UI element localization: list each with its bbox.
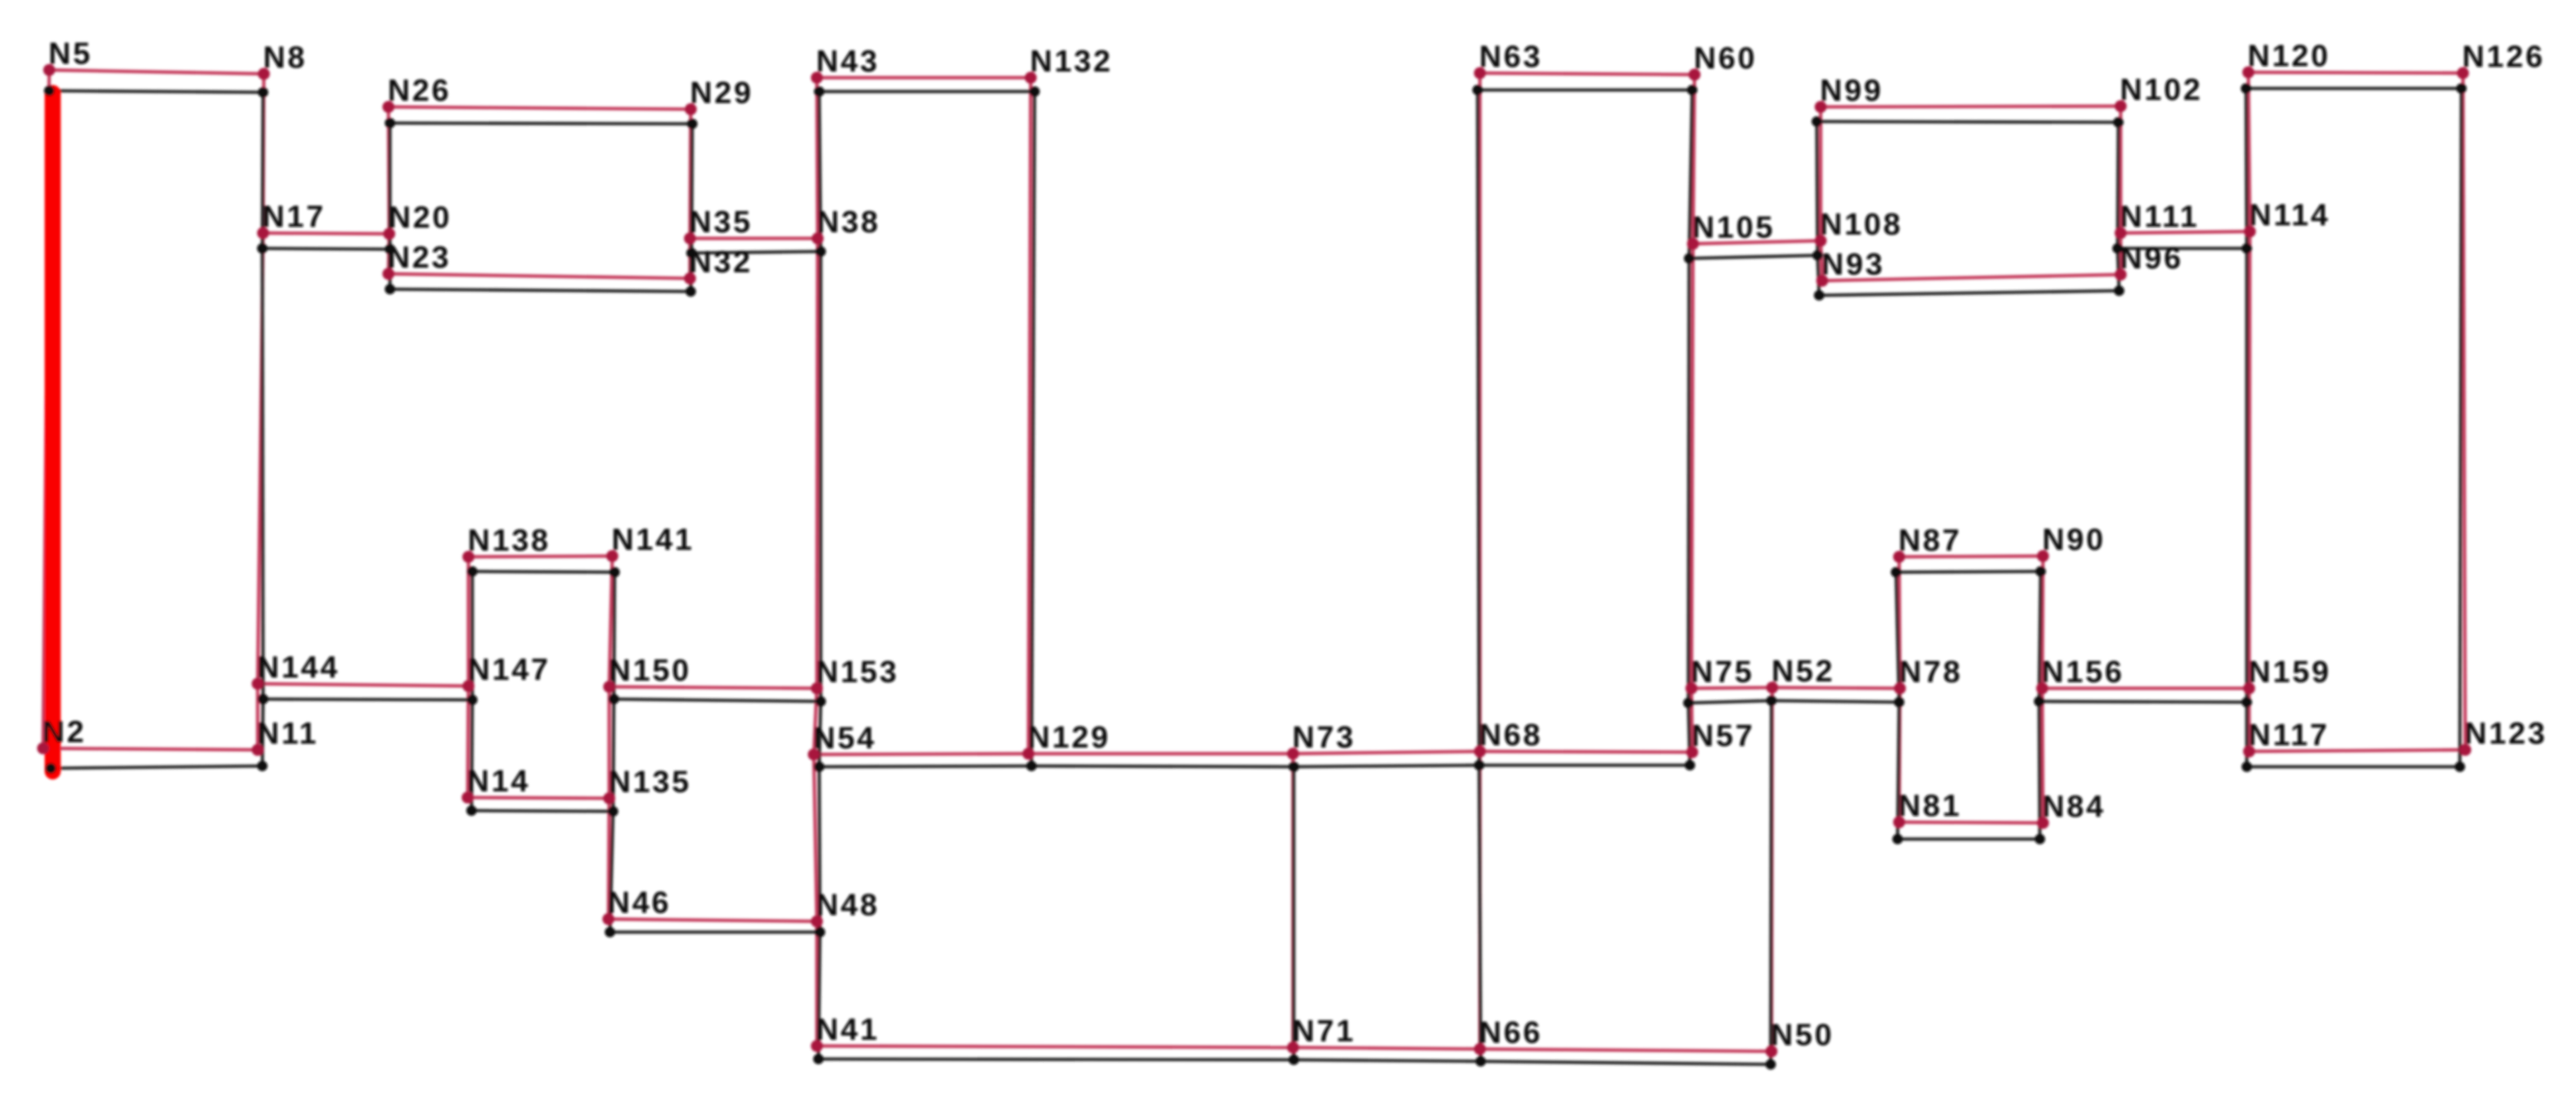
- wire N117-N123 (black layout): [2247, 765, 2460, 768]
- node N29 (red layout): [685, 103, 697, 115]
- wire N23-N32 (red layout): [388, 274, 690, 278]
- wire N43-N132 (red layout): [817, 76, 1031, 79]
- wire N156-N84 (red layout): [2042, 688, 2043, 823]
- wire N75-N57 (red layout): [1691, 688, 1692, 752]
- wire N14-N135 (red layout): [468, 798, 609, 798]
- wire N54-N129 (black layout): [819, 766, 1031, 767]
- wire N159-N117 (red layout): [2248, 688, 2251, 751]
- node N108 (red layout): [1815, 235, 1827, 247]
- wire N150-N135 (black layout): [613, 699, 614, 811]
- wire N114-N159 (red layout): [2249, 231, 2250, 688]
- svg-text:N117: N117: [2248, 718, 2329, 752]
- wire N99-N102 (red layout): [1821, 106, 2121, 107]
- node N96 (black layout): [2114, 285, 2124, 296]
- wire N87-N90 (red layout): [1899, 556, 2043, 557]
- wire N132-N129 (black layout): [1031, 92, 1035, 766]
- wire N5-N8 (red layout): [49, 70, 264, 74]
- wire N138-N147 (red layout): [467, 557, 470, 686]
- wire N78-N81 (red layout): [1899, 688, 1900, 822]
- wire N87-N78 (black layout): [1896, 572, 1899, 702]
- node N57 (red layout): [1686, 746, 1698, 758]
- wire N5-N2 (red layout): [43, 70, 49, 748]
- node N68 (red layout): [1474, 745, 1486, 758]
- svg-text:N108: N108: [1820, 208, 1903, 241]
- wire N54-N48 (black layout): [819, 767, 820, 932]
- svg-text:N68: N68: [1479, 718, 1542, 752]
- wire N17-N20 (black layout): [262, 248, 390, 249]
- node N14 (red layout): [462, 791, 474, 804]
- node N75 (black layout): [1683, 698, 1694, 708]
- wire N111-N114 (black layout): [2118, 247, 2247, 250]
- node N159 (red layout): [2243, 682, 2255, 694]
- node N84 (red layout): [2037, 817, 2049, 829]
- wire N20-N23 (black layout): [388, 249, 392, 289]
- node N48 (red layout): [811, 915, 823, 927]
- node N123 (red layout): [2459, 744, 2471, 756]
- svg-text:N2: N2: [42, 715, 86, 749]
- svg-text:N57: N57: [1691, 719, 1755, 753]
- wire N17-N20 (red layout): [263, 233, 389, 234]
- svg-text:N26: N26: [388, 74, 451, 108]
- svg-text:N46: N46: [608, 886, 671, 920]
- node N126 (red layout): [2457, 67, 2469, 79]
- node N20 (black layout): [385, 244, 395, 255]
- wire N63-N68 (black layout): [1478, 90, 1479, 765]
- node N150 (red layout): [603, 681, 615, 693]
- node N114 (black layout): [2241, 243, 2252, 254]
- wire N81-N84 (red layout): [1899, 822, 2043, 823]
- node N78 (black layout): [1894, 697, 1905, 708]
- wire N46-N48 (red layout): [608, 919, 817, 921]
- svg-text:N99: N99: [1820, 74, 1883, 108]
- wire N111-N96 (black layout): [2118, 248, 2119, 291]
- wire N93-N96 (black layout): [1819, 291, 2119, 295]
- node N52 (red layout): [1766, 681, 1778, 694]
- node N153 (black layout): [815, 696, 826, 707]
- node N120 (black layout): [2241, 83, 2251, 94]
- wire N156-N159 (black layout): [2039, 701, 2247, 702]
- node N138 (red layout): [462, 551, 475, 563]
- node N90 (black layout): [2035, 566, 2046, 577]
- wire N87-N78 (red layout): [1899, 557, 1900, 688]
- wire N5-N8 (black layout): [49, 91, 263, 92]
- node N43 (red layout): [811, 72, 823, 84]
- wire N117-N123 (red layout): [2249, 750, 2465, 751]
- wire N141-N150 (red layout): [609, 556, 612, 687]
- svg-text:N123: N123: [2464, 717, 2548, 751]
- node N111 (red layout): [2114, 227, 2127, 239]
- wire N105-N108 (black layout): [1689, 255, 1818, 258]
- wire N66-N50 (black layout): [1481, 1061, 1771, 1064]
- node N66 (red layout): [1474, 1043, 1486, 1055]
- node N32 (black layout): [685, 286, 696, 297]
- wire N17-N144 (red layout): [258, 233, 263, 684]
- node N141 (red layout): [606, 550, 618, 562]
- node N99 (black layout): [1811, 116, 1822, 127]
- node N63 (red layout): [1474, 67, 1486, 79]
- node N54 (black layout): [814, 761, 825, 772]
- node N75 (red layout): [1685, 682, 1698, 694]
- wire N54-N129 (red layout): [814, 754, 1028, 754]
- node N48 (black layout): [815, 927, 825, 937]
- wire N153-N54 (red layout): [814, 688, 817, 754]
- node N23 (black layout): [385, 284, 395, 295]
- wire N26-N29 (red layout): [388, 107, 691, 109]
- svg-text:N159: N159: [2248, 655, 2331, 689]
- wire N93-N96 (red layout): [1822, 275, 2121, 281]
- wire N23-N32 (black layout): [390, 289, 691, 291]
- svg-text:N8: N8: [263, 41, 307, 75]
- svg-text:N17: N17: [262, 200, 325, 234]
- node N71 (red layout): [1287, 1041, 1299, 1054]
- node N156 (red layout): [2036, 682, 2048, 694]
- wire N141-N150 (black layout): [614, 572, 615, 699]
- node N5 (red layout): [43, 64, 55, 76]
- svg-text:N105: N105: [1692, 211, 1775, 245]
- wire N66-N50 (red layout): [1480, 1049, 1771, 1051]
- svg-text:N32: N32: [689, 245, 752, 279]
- svg-text:N41: N41: [816, 1013, 879, 1047]
- wire N90-N156 (red layout): [2042, 556, 2043, 688]
- svg-text:N50: N50: [1771, 1018, 1834, 1052]
- wire N14-N135 (black layout): [472, 811, 613, 811]
- wire N156-N159 (red layout): [2042, 687, 2249, 690]
- wire N73-N68 (black layout): [1294, 765, 1479, 767]
- node N135 (red layout): [603, 792, 615, 804]
- svg-text:N126: N126: [2462, 40, 2545, 74]
- wire N60-N105 (red layout): [1693, 75, 1695, 244]
- wire N138-N141 (black layout): [472, 571, 615, 572]
- wire N73-N71 (red layout): [1291, 754, 1295, 1047]
- wire N63-N68 (red layout): [1478, 73, 1481, 751]
- wire N108-N93 (black layout): [1818, 255, 1819, 295]
- node N50 (red layout): [1765, 1045, 1778, 1057]
- wire N111-N96 (red layout): [2119, 233, 2122, 275]
- wire N114-N159 (black layout): [2245, 248, 2248, 702]
- wire N126-N123 (black layout): [2460, 88, 2461, 767]
- wire N78-N81 (black layout): [1898, 702, 1899, 839]
- wire N99-N102 (black layout): [1817, 122, 2118, 122]
- node N93 (red layout): [1816, 275, 1828, 287]
- node N38 (red layout): [811, 232, 824, 245]
- node N156 (black layout): [2034, 696, 2044, 707]
- node N32 (red layout): [684, 272, 696, 285]
- node N87 (red layout): [1893, 551, 1905, 563]
- node N14 (black layout): [466, 805, 477, 816]
- node N46 (red layout): [602, 913, 615, 925]
- wire N73-N68 (red layout): [1293, 751, 1480, 754]
- wire N156-N84 (black layout): [2039, 701, 2040, 839]
- svg-text:N144: N144: [257, 651, 340, 684]
- node N63 (black layout): [1472, 85, 1483, 95]
- svg-text:N141: N141: [612, 523, 695, 557]
- svg-text:N35: N35: [689, 205, 752, 239]
- wire N29-N35 (red layout): [690, 109, 691, 238]
- node N135 (black layout): [608, 806, 618, 817]
- node N73 (red layout): [1287, 748, 1299, 760]
- node N138 (black layout): [467, 566, 478, 577]
- wire N75-N52 (black layout): [1688, 701, 1771, 703]
- wire N144-N11 (red layout): [256, 684, 259, 750]
- node N2 (black layout): [45, 763, 56, 774]
- wire N81-N84 (black layout): [1898, 838, 2040, 841]
- wire N105-N75 (black layout): [1688, 258, 1689, 703]
- node N96 (red layout): [2114, 268, 2127, 281]
- node N132 (black layout): [1029, 86, 1040, 97]
- wire N41-N71 (red layout): [817, 1046, 1293, 1047]
- wire N35-N32 (red layout): [688, 238, 691, 278]
- node N2 (red layout): [37, 742, 49, 754]
- wire N43-N38 (red layout): [817, 78, 818, 238]
- svg-text:N93: N93: [1821, 248, 1885, 281]
- node N129 (red layout): [1022, 748, 1035, 760]
- wire N20-N23 (red layout): [388, 234, 389, 274]
- node N147 (black layout): [467, 694, 478, 705]
- svg-text:N135: N135: [608, 765, 691, 799]
- wire N144-N147 (red layout): [258, 684, 468, 686]
- node N8 (black layout): [258, 87, 268, 98]
- node N71 (black layout): [1288, 1054, 1299, 1065]
- svg-text:N48: N48: [816, 888, 879, 922]
- svg-text:N153: N153: [816, 655, 899, 689]
- wire N60-N105 (black layout): [1689, 90, 1692, 258]
- wire N150-N153 (black layout): [614, 699, 821, 701]
- node N41 (black layout): [813, 1054, 824, 1064]
- svg-text:N20: N20: [388, 201, 452, 235]
- node N38 (black layout): [815, 246, 826, 257]
- node N144 (red layout): [252, 678, 264, 690]
- node N99 (red layout): [1815, 101, 1827, 113]
- wire N38-N153 (red layout): [817, 238, 818, 688]
- svg-text:N81: N81: [1898, 789, 1961, 823]
- node N60 (black layout): [1687, 85, 1698, 95]
- svg-text:N147: N147: [468, 653, 551, 687]
- wire N102-N111 (black layout): [2118, 122, 2118, 248]
- node N41 (red layout): [811, 1040, 823, 1052]
- svg-text:N60: N60: [1694, 42, 1757, 75]
- wire N52-N50 (black layout): [1771, 701, 1771, 1064]
- wire N135-N46 (red layout): [608, 798, 609, 919]
- wire N138-N141 (red layout): [468, 556, 612, 557]
- node N66 (black layout): [1475, 1056, 1486, 1067]
- wire N159-N117 (black layout): [2245, 702, 2248, 767]
- node N102 (red layout): [2114, 100, 2127, 112]
- node N114 (red layout): [2244, 225, 2256, 238]
- svg-text:N71: N71: [1292, 1014, 1355, 1048]
- node N144 (black layout): [258, 694, 268, 704]
- node N147 (red layout): [462, 680, 475, 692]
- wire N26-N20 (red layout): [388, 107, 389, 234]
- wire N71-N66 (red layout): [1293, 1047, 1480, 1049]
- wire N54-N48 (red layout): [814, 754, 817, 921]
- svg-text:N114: N114: [2249, 198, 2330, 232]
- wire N68-N57 (black layout): [1479, 764, 1690, 767]
- node N52 (black layout): [1766, 695, 1777, 706]
- wire N99-N108 (black layout): [1817, 122, 1818, 255]
- node N5 (black layout): [44, 85, 55, 96]
- node N73 (black layout): [1288, 761, 1299, 772]
- node N43 (black layout): [814, 86, 825, 97]
- wire N8-N17 (black layout): [262, 92, 263, 248]
- node N105 (red layout): [1687, 238, 1699, 250]
- svg-text:N78: N78: [1899, 655, 1962, 689]
- wire N8-N17 (red layout): [263, 74, 264, 233]
- svg-text:N73: N73: [1292, 721, 1355, 754]
- wire N75-N57 (black layout): [1688, 703, 1690, 765]
- svg-text:N156: N156: [2041, 655, 2124, 689]
- wire N129-N73 (red layout): [1028, 752, 1293, 755]
- wire N35-N38 (red layout): [690, 237, 818, 240]
- node N50 (black layout): [1765, 1059, 1776, 1070]
- wire N153-N54 (black layout): [819, 701, 821, 767]
- wire N29-N35 (black layout): [691, 124, 692, 253]
- svg-text:N96: N96: [2120, 241, 2183, 275]
- wire N108-N93 (red layout): [1821, 241, 1822, 281]
- wire N41-N71 (black layout): [818, 1059, 1294, 1060]
- node N23 (red layout): [382, 268, 395, 280]
- node N153 (red layout): [811, 682, 823, 694]
- node N26 (black layout): [385, 118, 395, 128]
- node N81 (black layout): [1892, 834, 1903, 844]
- node N54 (red layout): [808, 748, 820, 761]
- svg-text:N120: N120: [2248, 39, 2331, 73]
- node N108 (black layout): [1812, 250, 1823, 261]
- node N150 (black layout): [608, 694, 619, 704]
- node N68 (black layout): [1474, 760, 1485, 771]
- node N29 (black layout): [687, 118, 698, 129]
- node N90 (red layout): [2037, 550, 2049, 562]
- wire N52-N78 (red layout): [1772, 688, 1900, 688]
- svg-text:N54: N54: [813, 721, 876, 755]
- wire N138-N147 (black layout): [471, 571, 474, 700]
- wire N38-N153 (black layout): [819, 251, 822, 701]
- wire N129-N73 (black layout): [1031, 766, 1294, 767]
- wire N147-N14 (black layout): [472, 700, 472, 811]
- svg-text:N129: N129: [1028, 721, 1111, 754]
- wire N17-N144 (black layout): [262, 248, 263, 699]
- wire N132-N129 (red layout): [1028, 78, 1031, 754]
- wire N87-N90 (black layout): [1896, 571, 2041, 572]
- svg-text:N111: N111: [2120, 200, 2199, 234]
- svg-text:N132: N132: [1030, 45, 1113, 78]
- node N111 (black layout): [2112, 243, 2123, 254]
- wire N75-N52 (red layout): [1691, 688, 1772, 688]
- wire N120-N126 (black layout): [2246, 87, 2461, 90]
- node N120 (red layout): [2242, 66, 2254, 78]
- wire N120-N114 (black layout): [2246, 88, 2247, 248]
- svg-text:N5: N5: [48, 37, 92, 71]
- node N87 (black layout): [1891, 567, 1901, 578]
- node N78 (red layout): [1894, 682, 1906, 694]
- node N35 (black layout): [686, 248, 697, 258]
- wire N26-N20 (black layout): [388, 123, 392, 249]
- wire N35-N38 (black layout): [691, 251, 821, 253]
- node N81 (red layout): [1893, 816, 1905, 828]
- node N84 (black layout): [2034, 834, 2045, 844]
- wire N52-N78 (black layout): [1771, 701, 1899, 702]
- wire N5-N2 (black layout): [49, 91, 51, 768]
- wire N111-N114 (red layout): [2121, 231, 2250, 233]
- wire N52-N50 (red layout): [1771, 688, 1772, 1051]
- wire N46-N48 (black layout): [610, 931, 820, 934]
- wire N26-N29 (black layout): [390, 123, 692, 124]
- svg-text:N23: N23: [388, 241, 451, 275]
- svg-text:N75: N75: [1691, 655, 1754, 689]
- node N11 (black layout): [257, 761, 268, 771]
- wire N48-N41 (red layout): [815, 921, 818, 1046]
- node N123 (black layout): [2454, 761, 2465, 772]
- wire N150-N135 (red layout): [608, 687, 611, 798]
- wire N63-N60 (red layout): [1480, 73, 1695, 75]
- wire N2-N11 (black layout): [51, 766, 262, 768]
- wire N99-N108 (red layout): [1819, 107, 1822, 241]
- wire N120-N114 (red layout): [2248, 72, 2250, 231]
- node N8 (red layout): [258, 68, 270, 80]
- node N105 (black layout): [1684, 253, 1695, 264]
- node N11 (red layout): [252, 744, 264, 756]
- wire N63-N60 (black layout): [1478, 88, 1692, 92]
- wire N135-N46 (black layout): [610, 811, 613, 932]
- node N26 (red layout): [382, 101, 395, 113]
- svg-text:N29: N29: [690, 76, 753, 110]
- svg-text:N63: N63: [1479, 40, 1542, 74]
- svg-text:N43: N43: [816, 45, 879, 78]
- wire N126-N123 (red layout): [2463, 73, 2465, 750]
- svg-text:N150: N150: [608, 654, 691, 688]
- highlighted edge N5-N2 (thick bright red): [45, 93, 61, 771]
- wire N102-N111 (red layout): [2119, 106, 2122, 233]
- wire N144-N147 (black layout): [263, 699, 472, 700]
- wire N48-N41 (black layout): [818, 932, 820, 1059]
- wire N71-N66 (black layout): [1294, 1060, 1481, 1061]
- svg-text:N11: N11: [257, 717, 318, 751]
- node N17 (black layout): [257, 243, 268, 254]
- wire N73-N71 (black layout): [1292, 767, 1295, 1060]
- node N93 (black layout): [1814, 290, 1825, 301]
- node N17 (red layout): [257, 227, 269, 239]
- node N46 (black layout): [605, 927, 615, 937]
- node N159 (black layout): [2241, 697, 2252, 708]
- node N132 (red layout): [1025, 72, 1037, 84]
- svg-text:N14: N14: [467, 764, 530, 798]
- wire N105-N75 (red layout): [1691, 244, 1693, 688]
- svg-text:N66: N66: [1479, 1016, 1542, 1050]
- wire N2-N11 (red layout): [43, 748, 258, 750]
- node N57 (black layout): [1685, 760, 1695, 771]
- node N20 (red layout): [383, 228, 395, 240]
- wire N43-N132 (black layout): [819, 90, 1035, 93]
- node N102 (black layout): [2113, 117, 2124, 128]
- node N129 (black layout): [1026, 761, 1037, 771]
- svg-text:N52: N52: [1771, 654, 1835, 688]
- svg-text:N38: N38: [817, 205, 880, 239]
- wire N144-N11 (black layout): [262, 699, 263, 766]
- wire N68-N66 (red layout): [1478, 751, 1481, 1049]
- wire N90-N156 (black layout): [2039, 571, 2041, 701]
- svg-text:N84: N84: [2042, 790, 2105, 824]
- wire N150-N153 (red layout): [609, 687, 817, 688]
- wire N120-N126 (red layout): [2248, 72, 2463, 73]
- node N117 (red layout): [2243, 745, 2255, 758]
- wire N105-N108 (red layout): [1693, 241, 1821, 244]
- wire N68-N57 (red layout): [1480, 751, 1692, 752]
- svg-text:N102: N102: [2120, 73, 2203, 107]
- node N60 (red layout): [1688, 68, 1701, 81]
- node N141 (black layout): [609, 567, 620, 578]
- node N117 (black layout): [2241, 761, 2252, 772]
- wire N147-N14 (red layout): [468, 686, 468, 798]
- svg-text:N138: N138: [468, 524, 551, 558]
